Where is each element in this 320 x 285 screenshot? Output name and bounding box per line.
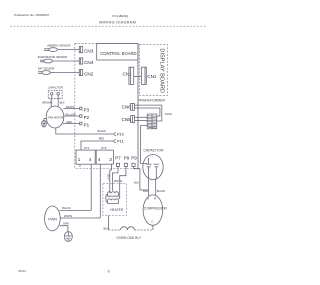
svg-text:BLU: BLU: [143, 189, 148, 193]
evaporator sensor probe: [40, 59, 79, 63]
terminal P1: [80, 122, 82, 125]
terminal P10: [114, 133, 116, 136]
svg-text:CN2: CN2: [84, 71, 94, 76]
svg-text:RED: RED: [67, 120, 73, 124]
terminal P11: [114, 140, 116, 143]
connector CN2: [79, 69, 82, 75]
svg-text:RY5: RY5: [101, 146, 107, 150]
connector CN1 display board: [142, 67, 147, 84]
svg-text:BROWN: BROWN: [43, 101, 53, 105]
svg-text:WIRING DIAGRAM: WIRING DIAGRAM: [99, 21, 136, 25]
svg-text:S: S: [147, 197, 149, 201]
wire relay RY5 pin4 down: [99, 164, 101, 218]
transformer T1: [147, 114, 157, 129]
header dashed separator: [10, 25, 207, 27]
svg-text:HEATER: HEATER: [110, 208, 124, 212]
wire red relay to P11: [81, 141, 114, 150]
svg-text:FYH-18ES2Q: FYH-18ES2Q: [112, 14, 128, 18]
wire relay RY3 pin4 down: [90, 164, 92, 210]
terminal P2: [80, 115, 82, 118]
defrost sensor probe: [38, 71, 79, 75]
reactor dashed box: [103, 184, 127, 216]
wire capacitor to compressor S: [147, 179, 149, 195]
wire red to P1: [63, 123, 80, 125]
svg-text:BLK: BLK: [104, 227, 109, 231]
svg-text:GRN: GRN: [63, 222, 69, 226]
svg-text:RED: RED: [99, 137, 105, 141]
svg-text:TRANSFORMER: TRANSFORMER: [138, 99, 166, 103]
svg-text:Publication No. 09084507: Publication No. 09084507: [14, 13, 50, 17]
svg-text:RY3: RY3: [84, 146, 90, 150]
svg-text:YELLOW: YELLOW: [65, 113, 76, 117]
svg-text:YELW: YELW: [165, 112, 173, 116]
svg-text:EVAPORATOR SENSOR: EVAPORATOR SENSOR: [38, 55, 67, 59]
ambient sensor probe: [44, 48, 79, 52]
svg-text:PWR: PWR: [48, 218, 57, 222]
wire capacitor to fan motor: [50, 99, 52, 108]
wire CN6 to transformer: [134, 105, 161, 121]
control board title box: [97, 44, 138, 61]
wire green power to ground: [60, 226, 68, 232]
svg-text:COMPRESSOR: COMPRESSOR: [144, 207, 168, 211]
control board right edge wire: [137, 44, 139, 169]
svg-text:CN6: CN6: [122, 105, 132, 110]
svg-text:P3: P3: [84, 107, 90, 112]
svg-text:6: 6: [108, 269, 110, 273]
svg-text:BLK: BLK: [60, 101, 65, 105]
wire reactor to overload: [108, 215, 110, 230]
run capacitor: [143, 155, 163, 180]
wire capacitor to compressor R: [155, 179, 157, 195]
svg-text:CN1: CN1: [147, 74, 157, 79]
svg-text:P10: P10: [117, 131, 125, 136]
svg-text:BLACK: BLACK: [157, 189, 166, 193]
svg-text:P2: P2: [84, 115, 90, 120]
svg-text:BLACK: BLACK: [98, 129, 107, 133]
svg-text:P1: P1: [84, 122, 90, 127]
wire white to P3: [64, 108, 80, 110]
ground fan motor: [42, 119, 47, 127]
wire yellow to P2: [64, 115, 80, 117]
svg-text:05/14: 05/14: [18, 269, 26, 273]
wire CN5 to transformer: [135, 116, 149, 118]
svg-text:CN3: CN3: [84, 49, 94, 54]
wire P9 to compressor side: [134, 166, 149, 190]
svg-text:P9: P9: [131, 156, 137, 161]
svg-text:4: 4: [98, 157, 101, 162]
svg-text:C: C: [151, 220, 153, 224]
connector CN4: [79, 58, 82, 64]
reactor coil 1: [108, 192, 119, 196]
svg-text:WHITE: WHITE: [64, 214, 73, 218]
svg-text:4: 4: [89, 157, 92, 162]
overload relay wire: [109, 227, 153, 230]
wire black fan motor to P10: [56, 128, 114, 134]
svg-text:P8: P8: [124, 156, 130, 161]
svg-text:OVERLOAD RLY: OVERLOAD RLY: [116, 236, 141, 240]
wire transformer to run capacitor: [141, 126, 149, 164]
svg-text:BLU: BLU: [106, 175, 110, 180]
svg-text:FAN MOTOR: FAN MOTOR: [48, 115, 63, 119]
reactor internal wires: [109, 184, 111, 194]
svg-text:CAPACITOR: CAPACITOR: [143, 148, 164, 152]
wire CN1 to CN1: [134, 76, 142, 78]
wire white power to relay: [60, 217, 100, 219]
ground power: [64, 232, 72, 242]
svg-text:BLACK: BLACK: [62, 206, 71, 210]
svg-text:CAPACITOR: CAPACITOR: [48, 86, 63, 90]
capacitor (fan) box: [48, 90, 62, 98]
svg-text:P11: P11: [117, 138, 124, 143]
svg-text:WHITE: WHITE: [66, 105, 75, 109]
fan motor M1: [46, 106, 64, 128]
svg-text:CN5: CN5: [122, 117, 132, 122]
svg-text:1: 1: [78, 157, 81, 162]
wire P7 to reactor: [112, 166, 118, 190]
svg-text:BLK: BLK: [134, 180, 139, 184]
svg-text:DAT SENSOR: DAT SENSOR: [38, 66, 55, 70]
svg-text:DISPLAY BOARD: DISPLAY BOARD: [158, 48, 164, 93]
svg-text:3: 3: [109, 157, 112, 162]
reactor coil 2: [108, 199, 119, 203]
svg-text:CN4: CN4: [84, 60, 94, 65]
relay pin stubs: [79, 164, 81, 167]
control board dashed box: [75, 44, 138, 169]
svg-text:R: R: [154, 197, 156, 201]
svg-text:WHITE: WHITE: [114, 179, 123, 183]
svg-text:P7: P7: [115, 156, 121, 161]
terminal P3: [80, 107, 82, 110]
connector CN3: [79, 47, 82, 53]
wire P8 to reactor: [118, 166, 126, 199]
wire black power to relay: [60, 209, 92, 211]
wire compressor C to overload: [152, 225, 154, 230]
wire relay RY5 pin3 down: [110, 164, 112, 184]
svg-text:CONTROL BOARD: CONTROL BOARD: [100, 51, 136, 56]
display board dashed box: [140, 45, 168, 96]
power plug: [45, 206, 61, 231]
svg-text:AMBIENT SENSOR: AMBIENT SENSOR: [47, 43, 70, 47]
compressor: [143, 195, 163, 225]
